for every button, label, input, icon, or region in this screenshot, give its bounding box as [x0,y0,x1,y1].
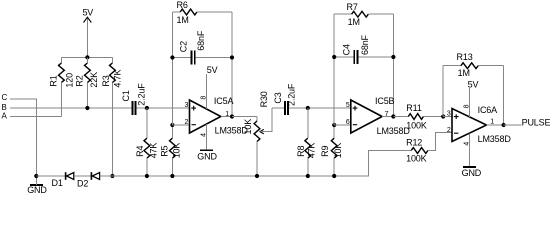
svg-text:3: 3 [185,102,189,109]
ground GND (left) [27,176,47,195]
junction left GND rail [34,174,38,178]
svg-text:IC5A: IC5A [214,96,234,106]
resistor R13 (1M) [443,52,503,78]
svg-text:D1: D1 [52,178,63,188]
supply 5V (arrow, top left) [82,7,93,57]
ground GND (IC6A pin 4) [462,133,482,178]
wire IC5A feedback left vertical [171,12,173,125]
svg-text:5V: 5V [82,7,93,17]
svg-text:R5: R5 [160,145,170,156]
resistor R11 (100K) [393,103,443,130]
svg-text:5V: 5V [468,80,479,90]
svg-text:100K: 100K [406,120,427,130]
resistor R2 (22K) [75,57,100,108]
junction IC5B pin6 node [332,123,336,127]
svg-text:R1: R1 [49,75,59,86]
wire IC5A output to R30 [232,116,257,118]
wire IC5B feedback right vertical [392,14,394,116]
resistor R6 (1M) [172,0,232,25]
svg-text:120: 120 [64,73,74,88]
svg-text:6: 6 [346,119,350,126]
svg-text:2: 2 [185,119,189,126]
svg-text:R11: R11 [406,103,422,113]
svg-text:100K: 100K [406,154,427,164]
svg-text:R12: R12 [406,138,422,148]
resistor R3 (4.7K) [101,57,123,176]
capacitor C3 (2.2uF) [272,83,297,115]
ground GND (IC5A pin 4) [197,124,217,161]
svg-text:47K: 47K [148,143,158,159]
wire R13 right vertical [503,66,505,125]
wire input A to R1 [10,115,61,117]
svg-text:GND: GND [462,168,482,178]
junction R8 bottom [306,174,310,178]
svg-text:2.2uF: 2.2uF [287,83,297,106]
svg-text:1M: 1M [348,17,360,27]
svg-text:IC5B: IC5B [375,96,395,106]
junction C2 right [230,55,234,59]
svg-text:GND: GND [27,185,47,195]
wire IC5A feedback right vertical [231,12,233,117]
svg-text:5V: 5V [207,65,218,75]
svg-text:LM358D: LM358D [478,134,512,144]
svg-text:1M: 1M [177,15,189,25]
net label PULSE [522,118,550,128]
wire output to PULSE [504,124,522,126]
svg-text:D2: D2 [77,179,88,189]
supply 5V (IC5A pin 8) [206,65,217,109]
svg-text:R7: R7 [347,2,358,12]
junction IC6A pin3 node [441,114,445,118]
node C (input label) [2,93,8,102]
supply 5V (IC6A pin 8) [468,80,479,117]
resistor R1 (120) [49,57,75,116]
junction R3-bottom rail [110,174,114,178]
wire C3 to IC5B pin5 [289,107,351,109]
svg-text:IC6A: IC6A [478,105,498,115]
svg-text:R3: R3 [101,75,111,86]
junction R4 bottom [145,174,149,178]
wire C1 to IC5A pin3 [137,107,190,109]
svg-text:LM358D: LM358D [377,126,411,136]
resistor R7 (1M) [334,2,393,27]
resistor R4 (47K) [135,108,158,176]
junction IC5A output [230,114,234,118]
svg-text:C4: C4 [341,44,351,55]
junction 5V rail [85,55,89,59]
junction R30 bottom [255,174,259,178]
wire input B to C1 [10,107,131,109]
junction C2 left [170,55,174,59]
svg-text:R4: R4 [135,145,145,156]
junction IC5B output [391,114,395,118]
svg-text:4.7K: 4.7K [113,70,123,88]
svg-text:68nF: 68nF [360,34,370,55]
resistor R12 (100K) [406,133,452,164]
op-amp IC5A (LM358D) [185,96,249,137]
wire IC5B output [382,116,393,118]
wire pin2 stub IC5A [172,124,189,126]
op-amp IC6A (LM358D) [447,104,512,145]
svg-text:R9: R9 [320,145,330,156]
wire input C to GND drop [10,99,36,176]
svg-text:R8: R8 [296,145,306,156]
svg-text:R6: R6 [177,0,188,10]
resistor R9 (10K) [320,125,343,176]
capacitor C2 (68nF) [172,30,232,64]
diode D1 [52,172,74,188]
wire pin3 stub IC6A [443,116,452,118]
resistor R8 (47K) [296,108,316,176]
svg-text:C2: C2 [179,41,189,52]
junction R5 bottom [170,174,174,178]
svg-text:2.2uF: 2.2uF [137,83,147,106]
op-amp IC5B (LM358D) [346,96,411,136]
junction IC6A output [502,123,506,127]
junction R2-B line [85,106,89,110]
junction R4 top [145,106,149,110]
svg-text:10K: 10K [172,143,182,159]
node B (input label) [2,103,7,112]
svg-text:R13: R13 [457,52,473,62]
svg-text:C: C [2,93,8,102]
wire bottom rail left [36,175,65,177]
svg-text:GND: GND [197,151,217,161]
junction R8 top [306,106,310,110]
node A (input label) [2,112,8,121]
svg-text:PULSE: PULSE [522,118,550,128]
wire D1-D2 [74,175,91,177]
diode D2 [77,172,100,188]
wire 5V rail (R1-R3 tops) [61,56,112,58]
wire R13 left vertical [442,66,444,117]
wire pin6 stub IC5B [334,124,351,126]
svg-text:10K: 10K [333,143,343,159]
svg-text:A: A [2,112,8,121]
junction C4 left [332,55,336,59]
junction IC5A pin2 node [170,123,174,127]
svg-text:5: 5 [346,102,350,109]
svg-text:C3: C3 [273,92,283,103]
svg-text:68nF: 68nF [196,30,206,51]
svg-text:1M: 1M [458,68,470,78]
svg-text:2: 2 [447,127,451,134]
svg-text:47K: 47K [307,143,317,159]
wire IC5A output [221,116,232,118]
svg-text:10K: 10K [243,119,253,135]
wire IC6A output [487,124,504,126]
svg-text:3: 3 [447,111,451,118]
svg-text:C1: C1 [121,90,131,101]
wire bottom rail right [100,151,412,177]
resistor R5 (10K) [160,125,182,176]
svg-text:R30: R30 [259,91,269,107]
junction C4 right [391,55,395,59]
capacitor C1 (2.2uF) [121,83,147,115]
junction R9 bottom [332,174,336,178]
trimmer R30 (10K) [243,91,272,176]
svg-text:R2: R2 [75,75,85,86]
svg-text:22K: 22K [89,72,99,88]
wire IC5B feedback left vertical [333,14,335,125]
capacitor C4 (68nF) [334,34,393,64]
